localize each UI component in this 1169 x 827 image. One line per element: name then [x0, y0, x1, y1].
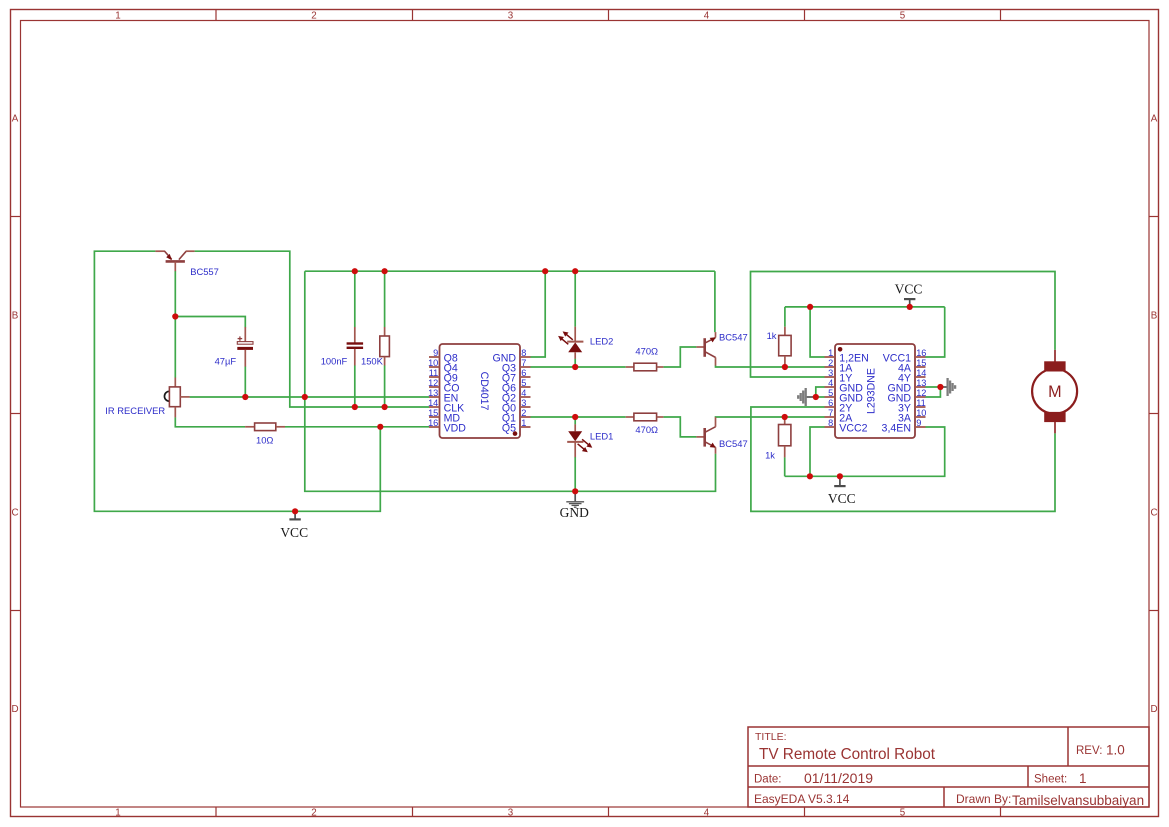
wire BC557 base down to node	[174, 271, 176, 317]
wire R470-1 to Q2 base jog	[663, 347, 696, 367]
node 100nF top junction	[352, 268, 358, 274]
svg-text:VCC2: VCC2	[839, 422, 867, 434]
wire 2Y rail down-under to motor	[751, 407, 1055, 511]
svg-text:16: 16	[916, 348, 926, 358]
node GND rail LED2 junction	[572, 268, 578, 274]
svg-text:BC547: BC547	[719, 438, 748, 449]
svg-text:10: 10	[916, 408, 926, 418]
svg-text:C: C	[11, 507, 18, 518]
svg-text:Drawn By:: Drawn By:	[956, 792, 1011, 806]
wire U1 pin2 Q1 to R470-2	[531, 416, 626, 418]
svg-text:470Ω: 470Ω	[635, 346, 658, 357]
svg-text:EasyEDA V5.3.14: EasyEDA V5.3.14	[754, 792, 850, 806]
node VCC rail pin1 riser junction	[807, 304, 813, 310]
node 1k-2A junction	[782, 414, 788, 420]
svg-text:100nF: 100nF	[321, 356, 348, 367]
node VCC2 bottom junction	[807, 473, 813, 479]
VCC symbol (below U2)	[834, 476, 845, 486]
ground symbol left of U2 pins 4-5	[798, 388, 816, 406]
wire BC557 collector to CLK pin14 of U1	[195, 251, 429, 407]
svg-text:M: M	[1048, 383, 1061, 401]
wire R470-2 to Q3 base jog	[663, 417, 696, 437]
svg-text:1: 1	[1079, 771, 1087, 786]
svg-text:B: B	[1151, 310, 1158, 321]
wire 10ohm to VDD pin16 of U1	[285, 426, 429, 428]
motor M1	[1032, 350, 1077, 433]
svg-text:7: 7	[828, 408, 833, 418]
svg-text:D: D	[11, 704, 18, 715]
transistor Q2 BC547 (upper)	[696, 332, 715, 366]
node VCC symbol bottom junction	[837, 473, 843, 479]
svg-text:470Ω: 470Ω	[635, 424, 658, 435]
wire IR receiver bottom to 10ohm resistor	[175, 417, 245, 427]
wire top rail down to Q2 emitter	[714, 271, 716, 332]
node EN-GND riser junction	[302, 394, 308, 400]
node GND jog junction (pin5)	[813, 394, 819, 400]
node 150K top junction	[382, 268, 388, 274]
svg-text:5: 5	[900, 10, 906, 21]
op-amp U1 CD4017 decade counter IC	[428, 344, 530, 438]
svg-text:2: 2	[311, 807, 316, 818]
svg-text:VCC: VCC	[280, 525, 308, 540]
wire top rail down to U1 pin8 GND	[531, 271, 546, 357]
wire node to 47uF top	[175, 317, 245, 328]
svg-text:47µF: 47µF	[215, 355, 237, 366]
wire 1Y rail up-over to motor	[751, 272, 1056, 378]
wire U2 pin4 GND jog to pin5	[816, 387, 825, 397]
svg-text:BC557: BC557	[190, 266, 219, 277]
wire U1 pin7 Q3 to R470-1	[531, 366, 626, 368]
svg-text:1k: 1k	[767, 330, 777, 341]
svg-text:TV Remote Control Robot: TV Remote Control Robot	[759, 746, 936, 763]
svg-text:3: 3	[508, 10, 514, 21]
wire VCC rail jog to U2 pin1	[810, 307, 824, 357]
node VDD riser junction	[377, 424, 383, 430]
resistor R7 1k (bottom)	[779, 417, 791, 457]
svg-text:01/11/2019: 01/11/2019	[804, 770, 873, 786]
resistor R5 470ohm (bottom)	[626, 413, 664, 421]
GND symbol (earth)	[566, 491, 584, 507]
wire U2 pin8 VCC2 down to bottom VCC row	[810, 427, 825, 476]
svg-text:15: 15	[428, 408, 438, 418]
svg-text:A: A	[12, 113, 19, 124]
svg-text:4: 4	[704, 10, 710, 21]
node VCC bottom-left junction	[292, 508, 298, 514]
wire Q3 collector up to 2A row toward U2 pin7	[716, 416, 825, 418]
wire LED1 anode up to Q1 row	[574, 417, 576, 424]
wire 150K top	[384, 271, 386, 327]
wire VCC left loop (top y=251, left x=94, bottom y=511, riser x=380)	[94, 251, 380, 511]
svg-text:1: 1	[115, 10, 120, 21]
svg-text:1: 1	[828, 348, 833, 358]
wire 100nF bottom to CLK row	[354, 365, 356, 407]
resistor R3 150K	[380, 327, 390, 366]
svg-text:BC547: BC547	[719, 331, 748, 342]
svg-text:4: 4	[704, 807, 710, 818]
wire 100nF top	[354, 271, 356, 327]
resistor R4 470ohm (top)	[626, 363, 664, 371]
node LED1-Q1 junction	[572, 414, 578, 420]
node base/cap junction	[172, 313, 178, 319]
svg-text:15: 15	[916, 358, 926, 368]
svg-text:3,4EN: 3,4EN	[882, 422, 911, 434]
svg-text:C: C	[1150, 507, 1157, 518]
wire 150K bottom to CLK row	[384, 365, 386, 407]
wire bottom VCC row up to U2 pin9	[785, 427, 945, 476]
svg-text:12: 12	[428, 378, 438, 388]
op-amp U2 L293DNE motor driver IC	[825, 344, 927, 438]
node 47uF-EN junction	[242, 394, 248, 400]
svg-text:10Ω: 10Ω	[256, 434, 273, 445]
svg-text:10: 10	[428, 358, 438, 368]
svg-text:3: 3	[508, 807, 514, 818]
svg-text:REV:: REV:	[1076, 745, 1102, 757]
wire VCC rail down to U2 pin16 VCC1	[926, 307, 945, 357]
node GND jog junction (pin13)	[937, 384, 943, 390]
resistor R1 10ohm	[245, 423, 285, 431]
svg-text:3: 3	[828, 368, 833, 378]
svg-text:L293DNE: L293DNE	[866, 368, 878, 414]
node GND row junction	[572, 488, 578, 494]
svg-text:VCC: VCC	[828, 491, 856, 506]
IR receiver R2	[164, 378, 189, 418]
svg-text:LED1: LED1	[590, 431, 613, 442]
wire VCC rail above U2	[785, 306, 945, 308]
svg-text:Tamilselvansubbaiyan: Tamilselvansubbaiyan	[1012, 793, 1144, 808]
svg-text:2: 2	[521, 408, 526, 418]
node 150K CLK junction	[382, 404, 388, 410]
svg-text:12: 12	[916, 388, 926, 398]
node LED2-Q3 junction	[572, 364, 578, 370]
svg-text:4: 4	[828, 378, 833, 388]
wire GND rail left riser and LED-GND row	[305, 271, 716, 491]
svg-text:5: 5	[828, 388, 833, 398]
wire LED2 anode to Q3 row	[574, 359, 576, 367]
svg-text:7: 7	[521, 358, 526, 368]
svg-text:2: 2	[828, 358, 833, 368]
svg-text:8: 8	[521, 348, 526, 358]
wire Q2 collector down to 1A row toward U2 pin2	[716, 365, 825, 367]
transistor Q4 BC557 (PNP)	[155, 251, 194, 271]
svg-text:Date:: Date:	[754, 774, 782, 786]
title block	[748, 727, 1149, 808]
wire U2 pin13 GND jog to pin12	[926, 387, 941, 397]
svg-text:LED2: LED2	[590, 335, 613, 346]
node 100nF CLK junction	[352, 404, 358, 410]
capacitor C2 100nF	[347, 327, 364, 366]
transistor Q3 BC547 (lower)	[696, 417, 715, 454]
svg-text:1: 1	[521, 418, 526, 428]
wire IR receiver out to EN pin13 of U1	[190, 396, 429, 398]
svg-text:16: 16	[428, 418, 438, 428]
svg-text:150K: 150K	[361, 356, 384, 367]
svg-text:1k: 1k	[765, 449, 775, 460]
svg-text:Sheet:: Sheet:	[1034, 774, 1067, 786]
svg-text:9: 9	[916, 418, 921, 428]
svg-text:A: A	[1151, 113, 1158, 124]
VCC symbol (above U2)	[904, 299, 915, 307]
svg-text:8: 8	[828, 418, 833, 428]
svg-text:13: 13	[428, 388, 438, 398]
svg-text:5: 5	[900, 807, 906, 818]
wire 47uF bottom to EN row	[244, 366, 246, 397]
svg-text:CD4017: CD4017	[478, 372, 490, 411]
svg-text:14: 14	[428, 398, 438, 408]
wire node down to IR receiver top	[174, 317, 176, 378]
svg-text:1: 1	[115, 807, 120, 818]
svg-text:13: 13	[916, 378, 926, 388]
wire VCC rail down to 1k-1	[784, 307, 786, 327]
LED2	[558, 327, 583, 359]
LED1	[567, 424, 592, 457]
svg-text:3: 3	[521, 398, 526, 408]
svg-text:11: 11	[429, 368, 439, 378]
wire top rail to LED2 cathode	[574, 271, 576, 326]
resistor R6 1k (top)	[779, 327, 791, 367]
svg-text:14: 14	[916, 368, 926, 378]
svg-text:5: 5	[521, 378, 526, 388]
svg-text:GND: GND	[560, 505, 589, 520]
node VCC rail symbol junction	[907, 304, 913, 310]
svg-text:B: B	[12, 310, 19, 321]
svg-text:VCC: VCC	[895, 282, 923, 297]
svg-text:D: D	[1150, 704, 1157, 715]
capacitor C1 47uF (polarized)	[237, 327, 253, 367]
svg-text:6: 6	[521, 368, 526, 378]
svg-text:4: 4	[521, 388, 526, 398]
svg-text:6: 6	[828, 398, 833, 408]
wire LED1 cathode down to GND row	[574, 457, 576, 491]
svg-text:VDD: VDD	[444, 422, 467, 434]
node 1k-1A junction	[782, 364, 788, 370]
wire GND top rail y=271	[305, 270, 715, 272]
svg-text:IR RECEIVER: IR RECEIVER	[105, 405, 165, 416]
ground symbol right of U2 pins 13-12	[940, 378, 955, 396]
svg-text:9: 9	[433, 348, 438, 358]
node GND rail pin8 junction	[542, 268, 548, 274]
svg-text:11: 11	[916, 398, 926, 408]
wire 1k-2 bottom to VCC row	[784, 457, 786, 476]
svg-text:2: 2	[311, 10, 316, 21]
svg-text:TITLE:: TITLE:	[755, 731, 787, 743]
VCC symbol (bottom left)	[289, 511, 300, 519]
svg-text:1.0: 1.0	[1106, 743, 1125, 758]
